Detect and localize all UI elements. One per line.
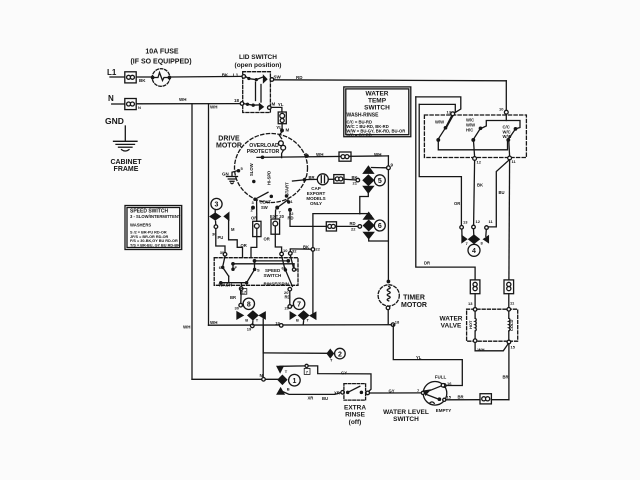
svg-text:OR: OR — [251, 216, 257, 221]
svg-text:3 - SLOW/INTERMITTENT: 3 - SLOW/INTERMITTENT — [130, 214, 181, 219]
svg-text:RINSE: RINSE — [345, 412, 366, 419]
svg-text:SLOW: SLOW — [249, 163, 254, 176]
svg-text:19: 19 — [247, 327, 252, 332]
svg-text:18: 18 — [275, 320, 280, 325]
svg-text:(IF SO EQUIPPED): (IF SO EQUIPPED) — [130, 59, 191, 66]
svg-text:30: 30 — [220, 250, 225, 255]
svg-text:B: B — [287, 387, 290, 392]
svg-text:RD: RD — [350, 221, 356, 226]
svg-text:RD: RD — [288, 216, 294, 221]
svg-text:21: 21 — [353, 181, 358, 186]
svg-text:8: 8 — [247, 301, 251, 308]
svg-text:CENT: CENT — [260, 200, 272, 205]
svg-text:M: M — [272, 102, 276, 107]
svg-text:TEMP: TEMP — [368, 98, 387, 105]
svg-text:START: START — [285, 182, 290, 196]
svg-text:2: 2 — [338, 351, 342, 358]
svg-text:H/C: H/C — [466, 127, 473, 132]
svg-text:10A FUSE: 10A FUSE — [145, 49, 179, 56]
svg-text:5: 5 — [378, 178, 382, 185]
svg-text:SWITCH: SWITCH — [393, 416, 419, 423]
svg-text:WH: WH — [374, 152, 382, 157]
svg-text:COLD: COLD — [509, 320, 514, 331]
svg-text:N: N — [138, 105, 141, 110]
svg-text:WH: WH — [183, 325, 191, 330]
svg-text:18: 18 — [234, 98, 240, 103]
svg-text:HI-SPD: HI-SPD — [267, 171, 272, 185]
svg-text:BK: BK — [139, 78, 146, 83]
svg-text:XR: XR — [334, 391, 340, 396]
svg-text:BR: BR — [458, 394, 464, 399]
svg-text:3: 3 — [215, 202, 219, 209]
svg-text:BU: BU — [322, 396, 328, 401]
svg-text:M: M — [286, 128, 290, 133]
svg-text:ONLY: ONLY — [310, 201, 322, 206]
svg-text:SWITCH: SWITCH — [264, 273, 282, 278]
svg-text:CABINET: CABINET — [110, 159, 142, 166]
svg-text:M: M — [231, 227, 235, 232]
svg-text:FRAME: FRAME — [114, 166, 139, 173]
svg-text:PROTECTOR: PROTECTOR — [247, 149, 280, 155]
svg-text:SW: SW — [274, 75, 282, 80]
svg-text:15: 15 — [447, 395, 452, 400]
svg-text:GY: GY — [389, 388, 395, 393]
svg-text:16: 16 — [447, 381, 452, 386]
svg-text:S: S — [257, 268, 260, 273]
svg-text:WASH: WASH — [219, 283, 233, 288]
svg-text:EXTRA: EXTRA — [344, 405, 366, 412]
svg-text:XR: XR — [308, 396, 314, 401]
svg-text:EXT 20: EXT 20 — [270, 214, 285, 219]
svg-text:BR: BR — [230, 295, 236, 300]
svg-text:WASHERS: WASHERS — [130, 223, 151, 228]
svg-text:FULL: FULL — [435, 375, 447, 380]
svg-text:YL: YL — [416, 355, 422, 360]
svg-text:SW: SW — [261, 205, 268, 210]
svg-text:L1: L1 — [233, 73, 239, 78]
svg-text:T/S = BR-BU, GY BU RD-BK: T/S = BR-BU, GY BU RD-BK — [130, 243, 180, 247]
svg-text:B: B — [296, 318, 299, 323]
svg-text:BR: BR — [309, 175, 315, 180]
svg-text:1: 1 — [292, 378, 296, 385]
svg-text:YL: YL — [278, 102, 284, 107]
svg-text:WH: WH — [210, 320, 218, 325]
svg-text:WH: WH — [179, 97, 187, 102]
svg-text:YL: YL — [276, 125, 282, 130]
svg-text:GY: GY — [341, 370, 347, 375]
svg-text:18: 18 — [395, 320, 400, 325]
svg-text:H/C = GY-RD: H/C = GY-RD — [347, 133, 372, 138]
svg-text:OR: OR — [454, 201, 460, 206]
svg-text:64: 64 — [282, 265, 287, 270]
svg-text:RD: RD — [285, 295, 291, 300]
svg-text:VALVE: VALVE — [441, 323, 462, 330]
svg-text:6: 6 — [378, 223, 382, 230]
svg-text:30: 30 — [235, 306, 240, 311]
svg-text:EMPTY: EMPTY — [436, 408, 452, 413]
svg-text:GND: GND — [105, 116, 124, 126]
svg-text:32: 32 — [292, 249, 297, 254]
svg-text:N: N — [260, 373, 263, 378]
svg-text:L1: L1 — [107, 68, 117, 77]
svg-text:7: 7 — [297, 301, 301, 308]
svg-text:W/W: W/W — [435, 120, 444, 125]
svg-text:22: 22 — [351, 227, 356, 232]
svg-text:BR: BR — [503, 375, 509, 380]
svg-text:OR: OR — [264, 237, 270, 242]
svg-text:MOTOR: MOTOR — [216, 143, 242, 150]
svg-text:WH: WH — [316, 152, 324, 157]
svg-text:WATER: WATER — [440, 316, 463, 323]
svg-text:13: 13 — [468, 301, 473, 306]
svg-text:WATER LEVEL: WATER LEVEL — [383, 409, 429, 416]
svg-text:BK: BK — [303, 245, 309, 250]
svg-text:MOTOR: MOTOR — [401, 302, 427, 309]
svg-text:22: 22 — [316, 247, 321, 252]
svg-text:RINSE/SPIN: RINSE/SPIN — [264, 282, 290, 287]
svg-text:12: 12 — [477, 160, 482, 165]
svg-text:(open position): (open position) — [235, 62, 282, 69]
svg-text:BK: BK — [477, 183, 483, 188]
svg-text:DRIVE: DRIVE — [218, 136, 240, 143]
svg-text:B: B — [245, 318, 248, 323]
svg-text:BK: BK — [222, 73, 229, 78]
svg-text:GN: GN — [222, 172, 229, 177]
svg-text:20: 20 — [285, 306, 290, 311]
svg-text:TIMER: TIMER — [403, 295, 425, 302]
svg-text:RD: RD — [296, 75, 303, 80]
svg-text:12: 12 — [476, 219, 481, 224]
svg-text:13: 13 — [447, 110, 452, 115]
svg-text:BK: BK — [352, 175, 358, 180]
svg-text:N: N — [108, 94, 114, 103]
svg-text:WH: WH — [478, 347, 485, 352]
svg-text:LID SWITCH: LID SWITCH — [239, 54, 277, 61]
svg-text:HOT: HOT — [468, 320, 473, 329]
svg-text:15: 15 — [511, 344, 516, 349]
svg-text:10: 10 — [283, 248, 288, 253]
svg-text:13: 13 — [463, 220, 468, 225]
svg-text:4: 4 — [472, 248, 476, 255]
svg-text:SWITCH: SWITCH — [364, 105, 390, 112]
svg-text:W/W: W/W — [503, 134, 512, 139]
svg-text:PU: PU — [218, 235, 224, 240]
svg-text:WASH-RINSE: WASH-RINSE — [347, 112, 380, 118]
svg-text:17: 17 — [242, 289, 247, 294]
svg-text:(off): (off) — [349, 419, 362, 426]
svg-text:WATER: WATER — [366, 91, 389, 98]
svg-text:10: 10 — [499, 107, 504, 112]
svg-text:BU: BU — [499, 190, 505, 195]
svg-text:DR: DR — [424, 261, 430, 266]
svg-text:WH: WH — [210, 105, 218, 110]
